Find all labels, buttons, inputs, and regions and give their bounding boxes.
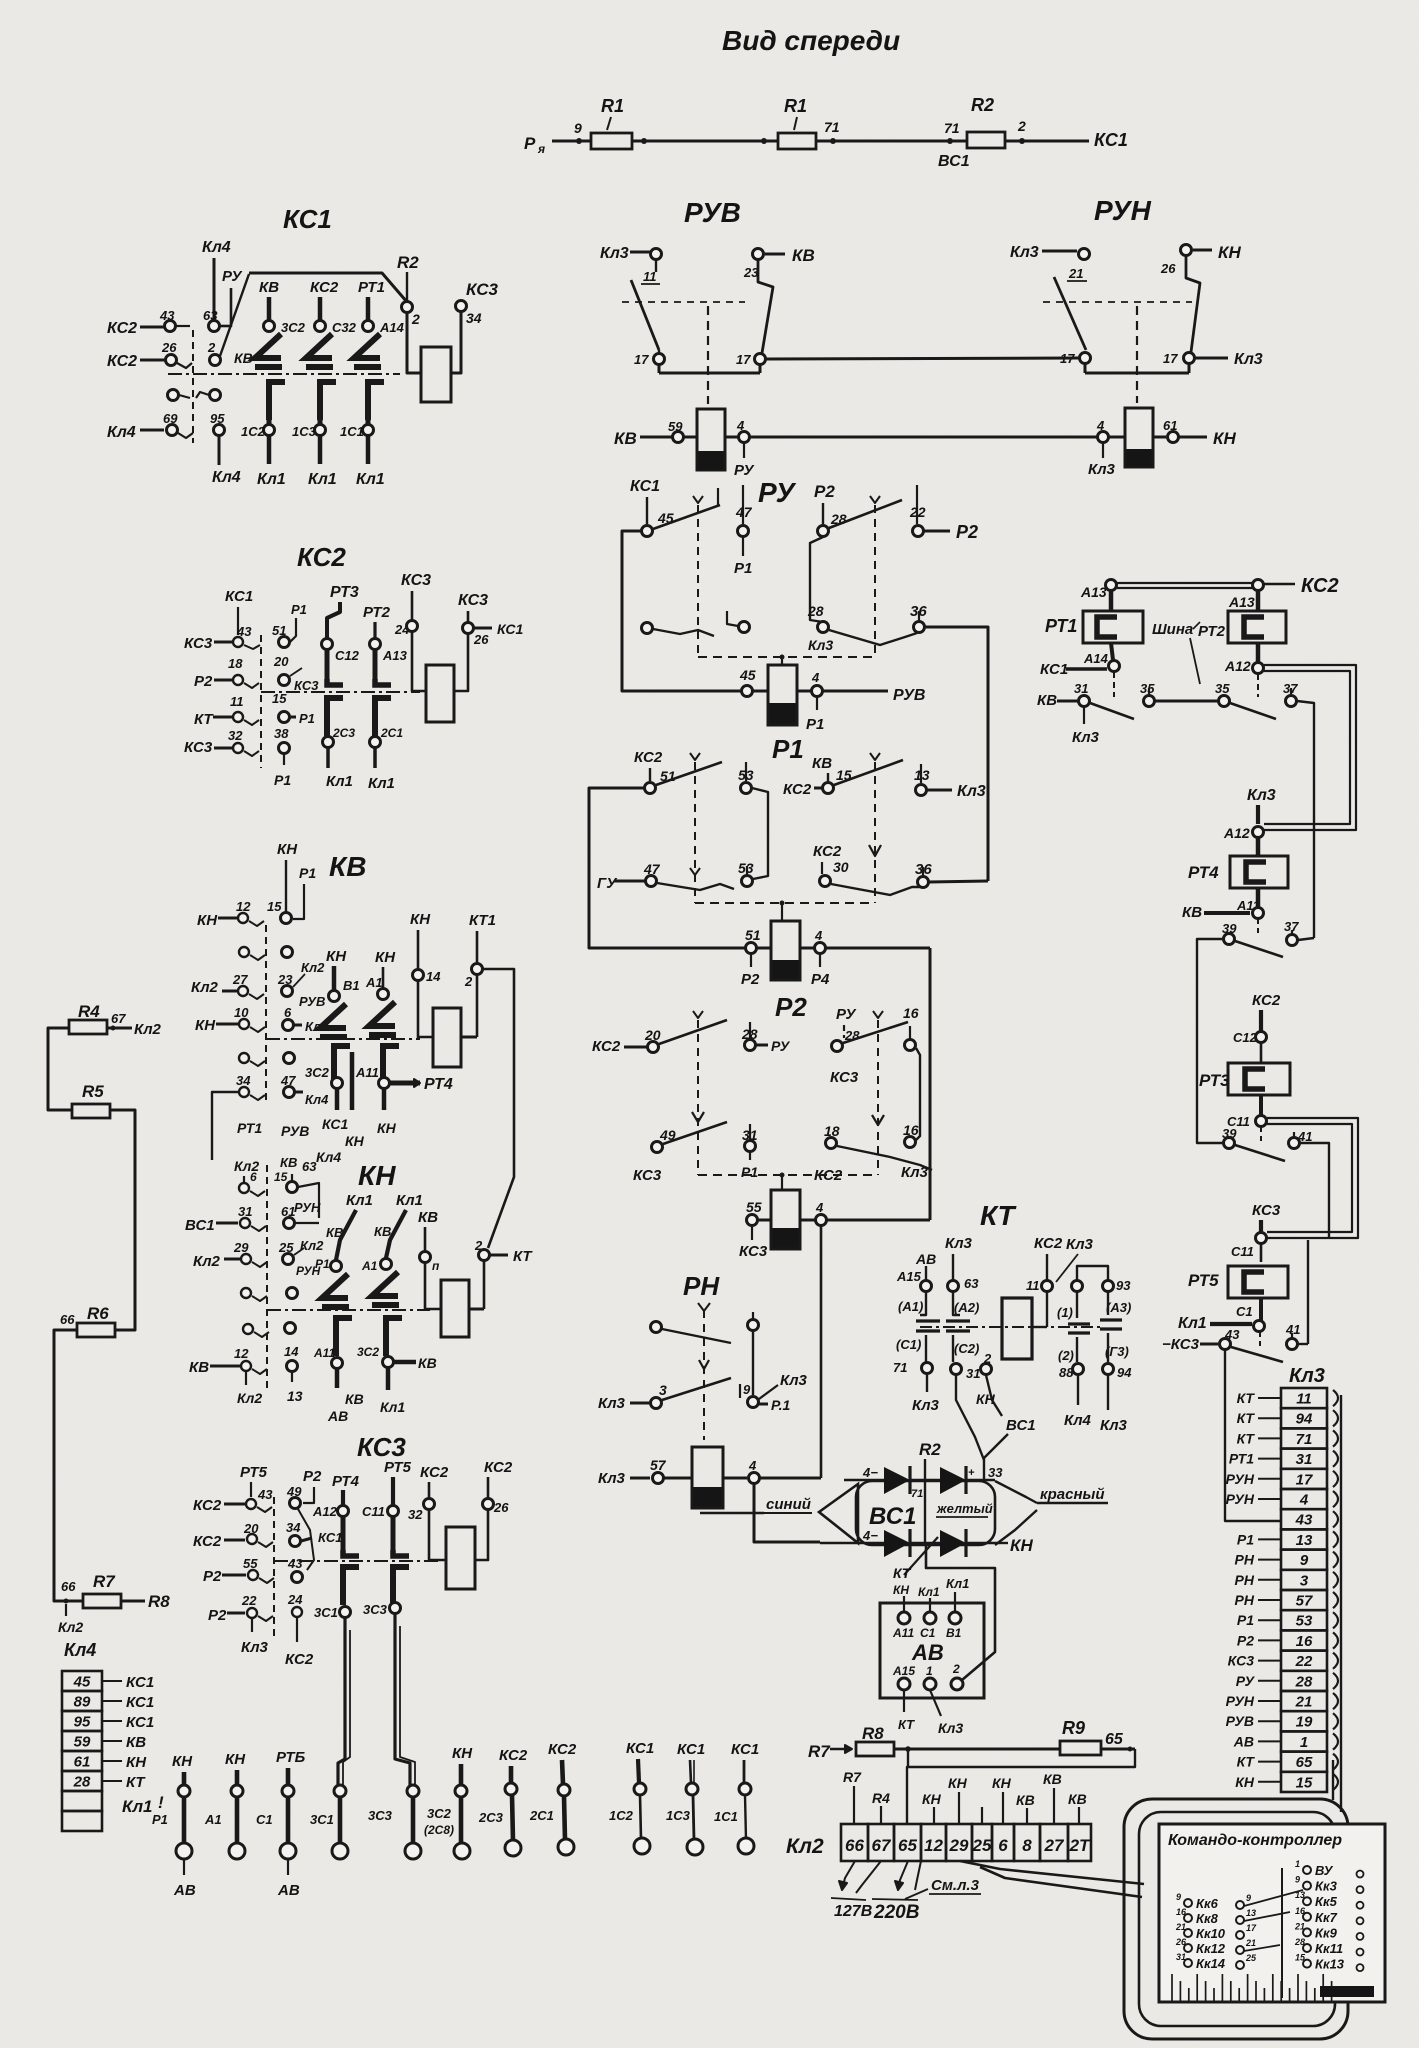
dash-dot linkage КВ <box>266 1038 420 1040</box>
dashed РТ5 to contact <box>1259 1332 1261 1346</box>
svg-text:С12: С12 <box>1233 1030 1258 1045</box>
svg-text:Р: Р <box>524 134 536 153</box>
svg-text:37: 37 <box>1284 919 1299 934</box>
stub 3С1 double-line <box>338 1700 345 1785</box>
svg-text:65: 65 <box>1296 1754 1313 1771</box>
second thick drop КН <box>350 1052 355 1110</box>
svg-text:65: 65 <box>898 1836 917 1855</box>
svg-text:3С2: 3С2 <box>427 1806 452 1821</box>
svg-text:4: 4 <box>815 1200 824 1215</box>
svg-text:РУН: РУН <box>294 1200 321 1215</box>
svg-text:2: 2 <box>1017 118 1026 134</box>
svg-text:КС3: КС3 <box>633 1167 662 1184</box>
svg-text:КС2: КС2 <box>484 1459 513 1476</box>
svg-text:17: 17 <box>1060 351 1075 366</box>
svg-text:9: 9 <box>1176 1892 1181 1902</box>
svg-text:Кл1: Кл1 <box>918 1585 940 1599</box>
node КС2 right <box>1253 580 1264 591</box>
svg-text:33: 33 <box>988 1465 1003 1480</box>
svg-text:А12: А12 <box>1223 825 1250 841</box>
svg-text:КВ: КВ <box>280 1155 297 1170</box>
wire 16 bracket down <box>916 1048 920 1140</box>
svg-text:Кл1: Кл1 <box>1178 1315 1207 1332</box>
svg-text:КС3: КС3 <box>739 1243 768 1260</box>
svg-text:63: 63 <box>302 1159 317 1174</box>
resistor R1 (left) <box>591 133 632 149</box>
dashed linkage КС2 vertical <box>260 635 262 768</box>
controller contacts left col <box>1184 1899 1192 1907</box>
svg-text:КС3: КС3 <box>357 1432 406 1462</box>
wire 34 down to coil <box>451 312 461 373</box>
svg-text:13: 13 <box>1296 1532 1313 1549</box>
svg-text:А12: А12 <box>312 1504 338 1519</box>
svg-text:26: 26 <box>1160 261 1176 276</box>
wire КТ1 right rail down <box>483 969 514 1248</box>
svg-text:45: 45 <box>739 667 756 683</box>
svg-text:R4: R4 <box>872 1790 890 1806</box>
svg-text:3С2: 3С2 <box>305 1065 330 1080</box>
cable bundle right of Кл3 <box>1333 1390 1338 1406</box>
svg-text:КН: КН <box>922 1791 942 1807</box>
svg-text:А1: А1 <box>204 1812 222 1827</box>
svg-text:Командо-контроллер: Командо-контроллер <box>1168 1832 1342 1849</box>
coil КТ <box>1002 1298 1032 1359</box>
svg-text:С11: С11 <box>1231 1244 1254 1259</box>
svg-text:Кл1: Кл1 <box>308 471 337 488</box>
wire РУН bottom connector <box>1084 364 1087 373</box>
svg-text:РН: РН <box>1235 1552 1255 1568</box>
svg-text:R7: R7 <box>93 1572 116 1591</box>
svg-text:Кк3: Кк3 <box>1315 1879 1338 1894</box>
svg-text:КВ: КВ <box>1016 1792 1035 1808</box>
svg-text:КВ: КВ <box>126 1734 146 1751</box>
svg-text:КВ: КВ <box>1182 904 1202 921</box>
svg-text:51: 51 <box>745 927 761 943</box>
coil РУВ <box>697 409 725 470</box>
svg-text:2: 2 <box>952 1662 960 1676</box>
svg-text:КВ: КВ <box>812 755 832 772</box>
svg-text:43: 43 <box>257 1487 273 1502</box>
svg-text:3: 3 <box>1300 1572 1309 1589</box>
svg-text:КН: КН <box>345 1133 365 1149</box>
АВ top circles <box>898 1612 910 1624</box>
svg-text:(С1): (С1) <box>896 1337 921 1352</box>
svg-text:С11: С11 <box>362 1504 385 1519</box>
svg-text:КТ: КТ <box>1237 1390 1256 1406</box>
coil Р2 <box>781 1175 783 1190</box>
svg-text:2Т: 2Т <box>1069 1836 1091 1855</box>
svg-text:РУ: РУ <box>734 462 755 479</box>
svg-text:66: 66 <box>61 1579 76 1594</box>
wire 36 to right vertical <box>925 627 988 881</box>
svg-text:КС3: КС3 <box>184 739 213 756</box>
svg-text:КС2: КС2 <box>193 1497 222 1514</box>
contact row5 pair <box>239 1053 249 1063</box>
svg-text:3С3: 3С3 <box>363 1602 388 1617</box>
svg-text:Кк12: Кк12 <box>1196 1941 1226 1956</box>
svg-text:65: 65 <box>1105 1731 1124 1748</box>
svg-text:15: 15 <box>274 1170 288 1184</box>
svg-text:КН: КН <box>126 1754 147 1771</box>
svg-text:127В: 127В <box>834 1903 872 1920</box>
svg-text:3: 3 <box>659 1382 667 1398</box>
svg-text:А15: А15 <box>892 1664 915 1678</box>
left rail Р1 <box>589 788 745 948</box>
wire КТ drop to coil <box>483 1261 486 1309</box>
svg-text:3С3: 3С3 <box>368 1808 393 1823</box>
svg-text:18: 18 <box>228 656 243 671</box>
svg-text:Кл3: Кл3 <box>600 245 629 262</box>
svg-text:Кл3: Кл3 <box>598 1395 626 1412</box>
svg-text:+: + <box>968 1467 975 1479</box>
svg-text:Р2: Р2 <box>775 992 807 1022</box>
svg-text:КС3: КС3 <box>294 678 319 693</box>
svg-text:Кл4: Кл4 <box>107 424 136 441</box>
svg-text:38: 38 <box>274 726 289 741</box>
svg-text:КН: КН <box>225 1751 246 1768</box>
svg-text:РТ4: РТ4 <box>424 1076 453 1093</box>
svg-text:67: 67 <box>111 1011 126 1026</box>
svg-text:РУ: РУ <box>836 1006 857 1023</box>
svg-text:1: 1 <box>1295 1859 1300 1869</box>
svg-text:Кл1: Кл1 <box>368 775 395 792</box>
svg-text:R8: R8 <box>862 1724 884 1743</box>
svg-text:26: 26 <box>161 340 177 355</box>
svg-text:26: 26 <box>1175 1937 1187 1947</box>
svg-text:28: 28 <box>1295 1673 1313 1690</box>
svg-text:КС1: КС1 <box>322 1116 349 1132</box>
svg-text:РТ1: РТ1 <box>1045 616 1077 636</box>
contact 28-16 right row1 <box>832 1041 843 1052</box>
svg-text:22: 22 <box>909 504 926 520</box>
svg-text:Кк7: Кк7 <box>1315 1910 1338 1925</box>
svg-text:1: 1 <box>1300 1734 1308 1751</box>
svg-text:КТ1: КТ1 <box>469 912 496 929</box>
svg-text:Кл1: Кл1 <box>946 1576 969 1591</box>
cable from Кл3 bundle to controller <box>1332 1760 1334 1800</box>
svg-text:КС1: КС1 <box>225 588 253 605</box>
svg-text:53: 53 <box>1296 1613 1313 1630</box>
svg-text:22: 22 <box>1295 1653 1313 1670</box>
svg-text:71: 71 <box>893 1360 907 1375</box>
svg-text:КН: КН <box>992 1775 1012 1791</box>
svg-text:Кл2: Кл2 <box>300 1238 324 1253</box>
svg-text:21: 21 <box>1245 1938 1256 1948</box>
controller internal wires <box>1281 1868 1283 1998</box>
svg-text:32: 32 <box>228 728 243 743</box>
svg-text:17: 17 <box>736 352 751 367</box>
svg-text:3С2: 3С2 <box>281 320 306 335</box>
svg-text:1С3: 1С3 <box>666 1808 691 1823</box>
svg-text:С1: С1 <box>920 1626 936 1640</box>
svg-text:Кл3: Кл3 <box>1072 729 1100 746</box>
dash-dot linkage КС3 <box>274 1560 440 1562</box>
svg-text:21: 21 <box>1175 1922 1186 1932</box>
svg-text:А14: А14 <box>379 320 405 335</box>
svg-text:Кл2: Кл2 <box>786 1835 824 1858</box>
svg-text:Кл1: Кл1 <box>346 1192 373 1209</box>
svg-text:КС1: КС1 <box>497 621 524 637</box>
svg-text:Р1: Р1 <box>299 865 316 881</box>
svg-text:14: 14 <box>284 1344 299 1359</box>
coil РУН <box>1125 408 1153 467</box>
svg-text:КВ: КВ <box>234 350 253 366</box>
svg-text:КВ: КВ <box>329 851 366 882</box>
node 2-КТ <box>479 1250 490 1261</box>
svg-text:−КС3: −КС3 <box>1162 1336 1200 1353</box>
coil КС1 <box>421 347 451 402</box>
wire KC1 top rail to R2 <box>249 273 407 302</box>
svg-text:R9: R9 <box>1062 1718 1085 1738</box>
svg-text:53: 53 <box>738 860 754 876</box>
svg-text:КС1: КС1 <box>126 1674 154 1691</box>
controller contacts right col <box>1303 1866 1311 1874</box>
svg-text:29: 29 <box>233 1240 249 1255</box>
svg-text:11: 11 <box>643 269 657 284</box>
svg-text:АВ: АВ <box>915 1251 936 1267</box>
contact row5 pair <box>243 1324 253 1334</box>
svg-text:71: 71 <box>944 120 960 136</box>
dashed linkage Р1 col2 <box>874 762 876 903</box>
svg-text:4: 4 <box>1299 1492 1309 1509</box>
svg-text:КТ: КТ <box>194 711 214 728</box>
svg-text:17: 17 <box>1246 1923 1257 1933</box>
wire right drop to Р2 block <box>929 948 932 1220</box>
Кл2 bottom arrows 127В 220В <box>842 1861 855 1890</box>
svg-text:КТ: КТ <box>513 1248 533 1265</box>
wire 47 down to Р1 label <box>742 537 744 556</box>
svg-text:16: 16 <box>1295 1906 1306 1916</box>
contact bars col1 <box>916 1319 940 1322</box>
svg-text:Кл4: Кл4 <box>1064 1412 1092 1429</box>
dashed linkage РУ horizontal <box>698 656 875 658</box>
coil РН <box>692 1447 723 1508</box>
svg-text:R7: R7 <box>808 1742 831 1761</box>
svg-text:КВ: КВ <box>374 1224 391 1239</box>
wire КС2-26 drop to coil <box>475 1477 488 1560</box>
left rail РУ <box>622 531 741 691</box>
svg-text:А1: А1 <box>361 1259 378 1273</box>
wire row6 left down <box>212 1092 238 1160</box>
svg-text:Кл2: Кл2 <box>58 1619 83 1635</box>
resistor R1 (middle) <box>778 133 816 149</box>
svg-text:А12: А12 <box>1224 658 1251 674</box>
svg-text:РУВ: РУВ <box>1226 1713 1254 1729</box>
svg-text:А11: А11 <box>892 1626 914 1640</box>
svg-text:РН: РН <box>683 1271 720 1301</box>
label КН right <box>1000 1542 1008 1544</box>
svg-text:34: 34 <box>466 310 482 326</box>
svg-text:2: 2 <box>411 311 420 327</box>
wire top rail <box>552 140 591 143</box>
svg-text:желтый: желтый <box>936 1501 993 1516</box>
svg-text:9: 9 <box>743 1382 751 1397</box>
controller black bus <box>1320 1986 1374 1997</box>
svg-text:РТБ: РТБ <box>276 1749 306 1766</box>
linkage dashed РУВ coil <box>707 306 709 404</box>
svg-text:37: 37 <box>1283 681 1298 696</box>
stub 3С3 double-line <box>395 1700 410 1785</box>
svg-text:РН: РН <box>1235 1572 1255 1588</box>
svg-text:28: 28 <box>1294 1937 1305 1947</box>
blade РУВ right <box>758 260 773 353</box>
dashed РТ2 to contact <box>1257 674 1259 697</box>
linkage dash-dot РУВ <box>622 301 745 303</box>
АВ bottom circles <box>898 1678 910 1690</box>
svg-text:16: 16 <box>903 1005 919 1021</box>
svg-text:55: 55 <box>746 1199 762 1215</box>
svg-text:10: 10 <box>234 1005 249 1020</box>
svg-text:4−: 4− <box>862 1528 878 1543</box>
svg-text:31: 31 <box>1074 681 1088 696</box>
svg-text:Кл2: Кл2 <box>193 1253 221 1270</box>
svg-text:КТ: КТ <box>1237 1410 1256 1426</box>
svg-text:1: 1 <box>926 1664 933 1678</box>
linkage dashed vertical КС1 <box>192 330 194 443</box>
wire R5 to R6 <box>110 1110 135 1330</box>
svg-text:Р1: Р1 <box>741 1164 758 1180</box>
svg-text:Кл1: Кл1 <box>396 1192 423 1209</box>
svg-text:31: 31 <box>1176 1952 1186 1962</box>
svg-text:31: 31 <box>238 1204 252 1219</box>
contact row2 left pair <box>642 623 653 634</box>
svg-text:9: 9 <box>574 120 582 136</box>
svg-text:РТ3: РТ3 <box>330 584 359 601</box>
wire coil right to КТ1 drop <box>461 1036 477 1039</box>
coil КН <box>441 1280 469 1337</box>
svg-text:АВ: АВ <box>911 1640 944 1665</box>
svg-text:(А3): (А3) <box>1106 1300 1131 1315</box>
svg-text:РТ5: РТ5 <box>384 1459 412 1476</box>
contact row1 РН <box>651 1322 662 1333</box>
wire РН right vertical <box>752 1331 754 1395</box>
wire Кл4 vertical <box>213 258 216 320</box>
contact bars col3-col4 <box>1076 1292 1078 1318</box>
svg-text:Р1: Р1 <box>1237 1531 1254 1547</box>
wire slant 49 to КС1 <box>298 1509 314 1570</box>
wire 28-28 vertical <box>810 537 823 622</box>
svg-text:КС1: КС1 <box>318 1530 342 1545</box>
svg-text:РТ2: РТ2 <box>1198 623 1226 640</box>
cable Кл2 to controller <box>960 1861 1144 1884</box>
dashed linkage Р2 col2 <box>877 1020 879 1175</box>
svg-text:Кл3: Кл3 <box>598 1470 626 1487</box>
controller outer cable outline <box>1124 1799 1348 2039</box>
wire синий arrow <box>700 1512 764 1514</box>
svg-text:Кл3: Кл3 <box>780 1372 808 1389</box>
svg-text:R2: R2 <box>971 95 994 115</box>
svg-text:РТ4: РТ4 <box>1188 863 1219 882</box>
svg-text:94: 94 <box>1117 1365 1132 1380</box>
wire КС2-32 drop to coil <box>429 1482 446 1560</box>
svg-text:РУВ: РУВ <box>893 687 925 704</box>
svg-text:КН: КН <box>277 841 298 858</box>
svg-text:ВС1: ВС1 <box>1006 1417 1036 1434</box>
nodes 88 94 <box>1076 1337 1078 1362</box>
svg-text:57: 57 <box>1296 1593 1313 1610</box>
dashed linkage Р1 horizontal <box>695 902 875 904</box>
svg-text:67: 67 <box>872 1836 892 1855</box>
svg-text:Кл1: Кл1 <box>356 471 385 488</box>
svg-text:1С2: 1С2 <box>609 1808 634 1823</box>
wire R8 node down to Кл2 <box>907 1749 909 1767</box>
wire R4 to R5 <box>48 1028 72 1110</box>
svg-text:КН: КН <box>1235 1774 1255 1790</box>
wire РУ stub <box>220 288 231 326</box>
svg-text:95: 95 <box>74 1714 91 1731</box>
svg-text:С12: С12 <box>335 648 360 663</box>
contact row2 pair <box>239 947 249 957</box>
svg-text:КС1: КС1 <box>1040 661 1068 678</box>
wire 37 to right drop <box>1297 701 1314 938</box>
svg-text:А11: А11 <box>355 1065 379 1080</box>
svg-text:ВУ: ВУ <box>1315 1863 1334 1878</box>
svg-text:Кл1: Кл1 <box>122 1797 152 1816</box>
blade РУВ left <box>631 280 659 350</box>
coil КС2 <box>426 665 454 722</box>
svg-text:РУ: РУ <box>222 268 243 285</box>
svg-text:4: 4 <box>814 928 823 943</box>
svg-text:А13: А13 <box>382 648 408 663</box>
svg-text:КН: КН <box>410 911 431 928</box>
svg-text:КВ: КВ <box>418 1355 437 1371</box>
svg-text:Вид спереди: Вид спереди <box>722 25 900 56</box>
svg-text:4: 4 <box>811 670 820 685</box>
wire R6 to R7 <box>54 1330 83 1601</box>
svg-text:6: 6 <box>250 1170 257 1184</box>
svg-text:КС2: КС2 <box>813 843 842 860</box>
svg-text:РУ: РУ <box>771 1038 791 1054</box>
svg-text:Кл4: Кл4 <box>212 469 241 486</box>
svg-text:93: 93 <box>1116 1278 1131 1293</box>
svg-text:РУН: РУН <box>1226 1471 1255 1487</box>
svg-text:11: 11 <box>1296 1391 1312 1408</box>
wire R7 to R8 label <box>121 1600 145 1603</box>
dashed linkage Р1 col1 <box>694 762 696 903</box>
svg-text:22: 22 <box>241 1593 257 1608</box>
svg-text:КН: КН <box>326 948 347 965</box>
wire bridge to АВ right side <box>926 1545 995 1680</box>
svg-text:п: п <box>432 1259 440 1273</box>
svg-text:РТ1: РТ1 <box>358 279 385 296</box>
bus return line <box>907 1749 1135 1824</box>
svg-text:КН: КН <box>195 1017 216 1034</box>
svg-text:220В: 220В <box>873 1902 920 1923</box>
svg-text:КС2: КС2 <box>592 1038 621 1055</box>
svg-text:R2: R2 <box>919 1440 941 1459</box>
svg-text:25: 25 <box>1245 1953 1257 1963</box>
svg-text:41: 41 <box>1285 1322 1300 1337</box>
svg-text:9: 9 <box>1246 1893 1251 1903</box>
svg-text:КС2: КС2 <box>310 279 339 296</box>
svg-text:15: 15 <box>1296 1774 1313 1791</box>
svg-text:КС1: КС1 <box>1094 130 1128 150</box>
svg-text:Кл3: Кл3 <box>1289 1365 1325 1387</box>
dashed РТ1 to contact <box>1113 672 1115 697</box>
svg-text:Р.1: Р.1 <box>771 1397 790 1413</box>
svg-text:45: 45 <box>73 1674 91 1691</box>
svg-text:Кл3: Кл3 <box>1066 1236 1094 1253</box>
coil КВ <box>433 1008 461 1067</box>
svg-text:55: 55 <box>243 1556 258 1571</box>
svg-text:КН: КН <box>452 1745 473 1762</box>
svg-text:Кл3: Кл3 <box>912 1397 940 1414</box>
svg-text:12: 12 <box>924 1836 943 1855</box>
svg-text:РУН: РУН <box>1226 1491 1255 1507</box>
svg-text:53: 53 <box>738 767 754 783</box>
svg-text:2: 2 <box>207 340 216 355</box>
svg-text:25: 25 <box>972 1836 992 1855</box>
